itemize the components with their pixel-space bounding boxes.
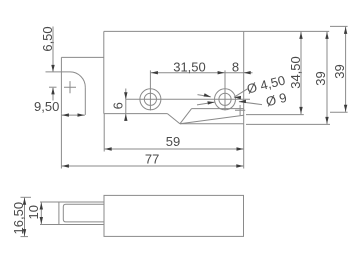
extension line tongue bottom right <box>246 123 330 125</box>
svg-text:6,50: 6,50 <box>40 26 55 51</box>
side view: bolt inner outline <box>63 204 104 222</box>
dimension 6,50 line <box>52 27 54 72</box>
svg-text:10: 10 <box>26 205 41 219</box>
top view: bolt tip edge <box>60 57 62 113</box>
extension line outer top right <box>330 25 348 27</box>
svg-text:8: 8 <box>232 59 239 74</box>
hole H1 inner circle <box>144 93 156 105</box>
top view: notch down-slope <box>167 114 180 124</box>
svg-text:9,50: 9,50 <box>34 99 59 114</box>
hole H1 vertical centerline <box>149 70 151 110</box>
top view: tongue bottom edge <box>180 123 244 125</box>
svg-text:39: 39 <box>332 64 347 78</box>
side view: tube top edge <box>40 201 104 203</box>
bend center cross <box>235 105 245 115</box>
side view: tube end edge <box>58 202 60 225</box>
hole H1 outer circle <box>140 89 161 110</box>
dimension 10 line <box>40 202 42 225</box>
svg-text:77: 77 <box>145 152 159 167</box>
extension line bolt tip down <box>60 114 62 169</box>
top view: slot steep edge <box>180 109 192 124</box>
top view: plate top edge <box>104 30 244 32</box>
diameter 9 leader <box>197 102 262 105</box>
svg-text:16,50: 16,50 <box>11 202 26 235</box>
dimension 6,50 tick at bolt axis <box>49 86 57 88</box>
top view: lug arc center cross <box>64 81 76 93</box>
top view: plate left edge <box>103 31 105 113</box>
side view: tube bottom edge <box>40 224 104 226</box>
top view: lug corner arc <box>70 72 85 87</box>
extension line outer bottom right <box>330 111 348 113</box>
horizontal centerline through holes <box>126 98 250 100</box>
dimension 59 line <box>104 148 244 150</box>
extension line plate left down <box>103 114 105 152</box>
hole H2 inner circle <box>219 93 231 105</box>
dimension 39 outer line <box>345 26 347 112</box>
top view: slot top edge <box>192 108 244 110</box>
top view: plate right edge <box>243 31 245 123</box>
dimension 34,50 line <box>300 31 302 114</box>
dimension 77 line <box>61 165 243 167</box>
extension line top right <box>244 30 330 32</box>
side view: housing body <box>104 195 244 236</box>
dimension 31,50 line <box>150 72 225 74</box>
dimension 9,50 line <box>61 114 85 116</box>
extension line plate right down <box>243 124 245 169</box>
top view: bolt top edge <box>61 56 103 58</box>
dimension 6 line <box>125 89 127 122</box>
top view: plate bottom edge <box>104 113 168 115</box>
dimension 16,50 line <box>24 197 26 236</box>
hole H2 vertical centerline <box>224 70 226 110</box>
dimension 8 line <box>225 72 253 74</box>
svg-text:34,50: 34,50 <box>288 56 303 89</box>
dimension 16,50 tick top <box>21 196 32 198</box>
extension line plate bottom right <box>246 114 304 116</box>
svg-text:59: 59 <box>166 134 180 149</box>
dimension 6,50 lower arrow <box>52 88 54 101</box>
svg-text:39: 39 <box>313 71 328 85</box>
svg-text:31,50: 31,50 <box>173 59 206 74</box>
top view: lug right edge <box>84 87 86 115</box>
top view: lug top edge <box>46 71 71 73</box>
diameter 4,50 leader <box>198 89 248 98</box>
hole H2 outer circle <box>215 89 236 110</box>
dimension 39 inner line <box>326 31 328 124</box>
svg-text:6: 6 <box>111 102 126 109</box>
top view: tongue bend edge <box>180 115 244 124</box>
dimension 16,50 tick bottom <box>21 236 29 238</box>
